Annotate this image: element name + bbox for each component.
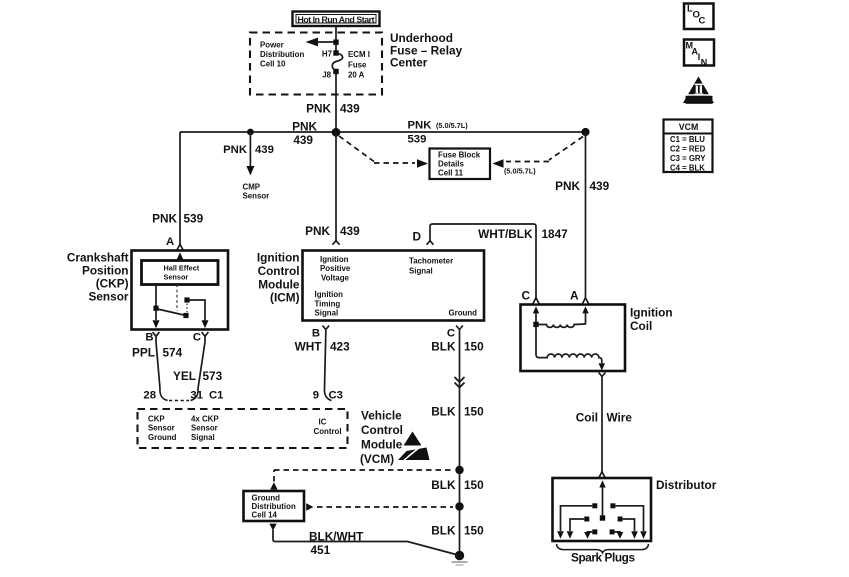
label PNK 439 (fuse output) <box>306 102 360 116</box>
label vehicle control module (VCM) <box>360 409 403 467</box>
ckp internal: arrow to C <box>202 320 209 328</box>
svg-text:PNK: PNK <box>152 212 177 226</box>
svg-text:PPL: PPL <box>132 346 155 360</box>
svg-text:Signal: Signal <box>409 266 433 275</box>
ckp internal: switch node <box>153 306 158 311</box>
svg-text:439: 439 <box>340 102 360 116</box>
distributor contact mid-left <box>567 517 590 539</box>
svg-text:PNK: PNK <box>306 102 331 116</box>
svg-text:H7: H7 <box>322 50 333 59</box>
connector A (coil) <box>582 298 589 304</box>
svg-text:150: 150 <box>464 478 484 492</box>
ignition coil box <box>521 305 626 372</box>
svg-text:(CKP): (CKP) <box>96 277 129 291</box>
svg-text:Signal: Signal <box>315 308 339 317</box>
svg-text:D: D <box>412 230 421 244</box>
wire BLK/WHT 451 <box>269 524 458 555</box>
svg-text:C: C <box>521 289 530 303</box>
label tachometer signal <box>409 257 453 276</box>
label BLK 150 (4) <box>431 524 484 538</box>
label WHT 423 <box>295 339 350 353</box>
pin 9 (vcm C3) <box>313 389 343 402</box>
label PNK 439 (cmp branch) <box>223 144 274 156</box>
ckp internal: switch arm <box>158 309 187 316</box>
distributor contact lower-left <box>584 529 597 538</box>
label BLK 150 (3) <box>431 478 484 492</box>
svg-text:ECM I: ECM I <box>348 50 370 59</box>
svg-text:Hall Effect: Hall Effect <box>164 264 200 273</box>
distributor contact mid-right <box>618 517 638 539</box>
svg-text:150: 150 <box>464 405 484 419</box>
svg-text:BLK: BLK <box>431 478 456 492</box>
svg-text:Distribution: Distribution <box>260 50 304 59</box>
svg-text:WHT/BLK: WHT/BLK <box>478 227 533 241</box>
connector coil tower <box>599 373 606 382</box>
svg-text:439: 439 <box>293 133 313 147</box>
wire fuse J8 to bus node <box>335 73 337 132</box>
svg-text:Cell 11: Cell 11 <box>438 169 464 178</box>
svg-text:Cell 10: Cell 10 <box>260 60 286 69</box>
label PNK 539 (ckp feed) <box>152 212 204 226</box>
svg-text:Hot In Run And Start: Hot In Run And Start <box>298 14 375 24</box>
label underhood fuse-relay center <box>390 31 463 70</box>
svg-text:20 A: 20 A <box>348 71 365 80</box>
dashed ref from right splice to fuse block details <box>493 137 584 168</box>
wire bus to ICM pin <box>335 132 337 241</box>
wire branch to power distribution <box>306 38 339 47</box>
svg-text:C1: C1 <box>209 390 223 402</box>
svg-text:1847: 1847 <box>542 227 569 241</box>
svg-text:B: B <box>312 327 320 339</box>
svg-text:PNK: PNK <box>292 120 317 134</box>
wire hot-in-run to fuse H7 <box>335 26 337 51</box>
coil secondary output arrow <box>599 363 606 370</box>
svg-text:Sensor: Sensor <box>191 424 218 433</box>
svg-text:Voltage: Voltage <box>321 273 350 282</box>
svg-text:539: 539 <box>184 212 204 226</box>
label ignition control module (ICM) <box>257 251 300 305</box>
svg-text:(ICM): (ICM) <box>270 291 300 305</box>
dashed ref from main splice to fuse block details <box>339 136 428 168</box>
svg-text:Spark Plugs: Spark Plugs <box>571 551 635 565</box>
coil secondary winding <box>536 327 602 363</box>
svg-text:PNK: PNK <box>408 120 433 132</box>
connector D <box>427 241 434 245</box>
coil internal arrow C <box>533 306 539 322</box>
label BLK 150 (1) <box>431 339 484 353</box>
svg-text:VCM: VCM <box>679 122 699 132</box>
svg-text:A: A <box>570 289 579 303</box>
svg-text:(5.0/5.7L): (5.0/5.7L) <box>504 167 536 176</box>
node splice vcm ground <box>455 466 463 474</box>
ckp internal: contact node <box>184 297 189 302</box>
svg-text:Ignition: Ignition <box>630 306 673 320</box>
svg-text:B: B <box>145 332 153 344</box>
label YEL 573 <box>173 369 223 383</box>
label crankshaft position (CKP) sensor <box>67 251 129 304</box>
label CMP Sensor <box>243 183 270 201</box>
connector C (coil) <box>533 298 540 304</box>
svg-text:Ignition: Ignition <box>320 255 349 264</box>
node splice S-bottom <box>452 551 468 565</box>
connector at ICM top <box>332 241 339 245</box>
svg-text:Timing: Timing <box>315 299 341 308</box>
svg-text:Cell 14: Cell 14 <box>252 510 278 519</box>
svg-text:Distributor: Distributor <box>656 478 717 492</box>
ckp internal: contact lead to C <box>189 300 205 321</box>
connector A (ckp) <box>177 244 184 250</box>
label PNK 439 (icm feed) <box>305 224 360 238</box>
svg-text:YEL: YEL <box>173 369 196 383</box>
connector C1 dashed link <box>169 400 189 402</box>
distributor rotor feed <box>599 480 605 520</box>
label PNK 539 (5.0/5.7L right bus) <box>408 120 469 146</box>
svg-text:150: 150 <box>464 524 484 538</box>
pin 28 (vcm C1) <box>143 389 167 402</box>
wire break marker <box>455 377 465 388</box>
coil wire <box>601 381 603 472</box>
svg-text:A: A <box>166 236 174 248</box>
svg-text:150: 150 <box>464 339 484 353</box>
ESD sensitivity symbol <box>398 432 430 461</box>
svg-text:Coil: Coil <box>630 319 652 333</box>
distributor box <box>553 478 652 541</box>
svg-text:Module: Module <box>258 278 300 292</box>
svg-text:Details: Details <box>438 160 464 169</box>
ckp internal: dotted gap <box>186 304 188 314</box>
wire bus to CKP sensor A <box>179 132 181 245</box>
svg-text:PNK: PNK <box>305 224 330 238</box>
svg-text:C: C <box>193 332 201 344</box>
CKP sensor box <box>132 251 229 330</box>
pin C (icm) <box>447 326 463 340</box>
svg-text:Ground: Ground <box>148 433 177 442</box>
svg-text:Power: Power <box>260 41 284 50</box>
icon MAIN box <box>684 40 714 68</box>
label BLK 150 (2) <box>431 405 484 419</box>
wire WHT 423 <box>325 333 326 389</box>
svg-text:PNK: PNK <box>223 144 248 156</box>
VCM dashed box <box>138 409 348 448</box>
label PNK 439 (left bus) <box>292 120 317 148</box>
distributor contact upper-right <box>610 503 646 538</box>
ckp internal: arrow to B <box>153 310 160 328</box>
svg-text:Sensor: Sensor <box>164 273 189 282</box>
svg-text:C1 = BLU: C1 = BLU <box>670 135 705 144</box>
pin B (ckp) <box>145 332 159 344</box>
fuse ECM 1 20A (H7-J8) <box>322 50 370 80</box>
svg-text:BLK: BLK <box>431 339 456 353</box>
svg-text:Control: Control <box>361 423 403 437</box>
icon LOC box <box>684 4 714 30</box>
svg-text:Center: Center <box>390 56 428 70</box>
svg-text:N: N <box>701 58 708 68</box>
arrow into hall sensor <box>177 252 184 260</box>
svg-text:451: 451 <box>311 543 331 557</box>
icon OBD II triangle <box>683 77 714 105</box>
svg-text:Sensor: Sensor <box>243 192 270 201</box>
svg-text:439: 439 <box>590 179 610 193</box>
svg-text:Control: Control <box>314 427 342 436</box>
node splice main <box>332 128 341 137</box>
svg-text:Wire: Wire <box>607 411 633 425</box>
label 4x ckp sensor signal <box>191 415 219 442</box>
spark plugs brace <box>557 544 649 553</box>
svg-text:Sensor: Sensor <box>148 424 175 433</box>
wire YEL 573 <box>198 342 205 389</box>
coil primary winding <box>538 324 586 327</box>
label BLK/WHT 451 <box>309 530 364 558</box>
svg-text:J8: J8 <box>322 71 331 80</box>
coil primary node <box>533 322 538 327</box>
svg-text:WHT: WHT <box>295 339 323 353</box>
svg-text:Tachometer: Tachometer <box>409 257 453 266</box>
svg-text:C2 = RED: C2 = RED <box>670 145 706 154</box>
svg-text:C3: C3 <box>329 390 343 402</box>
svg-text:CMP: CMP <box>243 183 261 192</box>
VCM connector legend <box>664 120 713 173</box>
svg-text:573: 573 <box>203 369 223 383</box>
label ignition positive voltage <box>320 255 351 282</box>
svg-text:C: C <box>447 327 455 339</box>
ground distribution cell 14 box <box>244 491 305 521</box>
svg-text:Fuse Block: Fuse Block <box>438 151 481 160</box>
label ignition timing signal <box>315 290 344 317</box>
ICM box <box>303 251 485 321</box>
svg-text:9: 9 <box>313 390 319 402</box>
ckp internal: switch arm node <box>183 313 188 318</box>
svg-text:CKP: CKP <box>148 415 165 424</box>
svg-text:Vehicle: Vehicle <box>361 409 402 423</box>
wire right splice to ignition coil A <box>585 132 587 298</box>
pin B (icm) <box>312 326 329 340</box>
label ignition coil <box>630 306 673 334</box>
wire BLK 150 (ground) <box>459 330 461 556</box>
svg-text:Coil: Coil <box>576 411 598 425</box>
node splice right <box>581 128 589 136</box>
ckp internal: hall output lead <box>155 285 157 310</box>
svg-text:(5.0/5.7L): (5.0/5.7L) <box>436 121 468 130</box>
wire cmp sensor branch <box>246 132 254 176</box>
svg-text:Fuse: Fuse <box>348 61 367 70</box>
svg-text:IC: IC <box>319 418 327 427</box>
svg-text:Crankshaft: Crankshaft <box>67 251 129 265</box>
svg-text:Ignition: Ignition <box>257 251 300 265</box>
wire PPL 574 <box>156 342 160 389</box>
distributor contact lower-right <box>610 529 624 538</box>
svg-text:Ground: Ground <box>449 309 478 318</box>
svg-text:OBD II: OBD II <box>688 97 710 104</box>
label WHT/BLK 1847 <box>478 227 568 241</box>
svg-text:Position: Position <box>82 264 129 278</box>
svg-text:C: C <box>699 16 706 27</box>
svg-text:4x CKP: 4x CKP <box>191 415 219 424</box>
connector distributor cap <box>599 472 606 478</box>
svg-text:439: 439 <box>255 144 274 156</box>
svg-text:574: 574 <box>163 346 183 360</box>
dashed wire vcm ground to splice <box>274 470 453 482</box>
pin 31 (vcm C1) <box>190 389 223 402</box>
svg-text:C4 = BLK: C4 = BLK <box>670 164 705 173</box>
fuse block details cell 11 box <box>430 149 491 180</box>
svg-text:423: 423 <box>330 339 350 353</box>
svg-text:BLK/WHT: BLK/WHT <box>309 530 364 544</box>
hot in run and start tag <box>293 12 380 27</box>
svg-text:C3 = GRY: C3 = GRY <box>670 154 706 163</box>
svg-text:Sensor: Sensor <box>89 290 129 304</box>
svg-text:PNK: PNK <box>555 179 580 193</box>
svg-text:Signal: Signal <box>191 433 215 442</box>
svg-text:439: 439 <box>340 224 360 238</box>
pin C (ckp) <box>193 332 209 344</box>
svg-text:Positive: Positive <box>320 264 351 273</box>
underhood fuse-relay center dashed box <box>250 33 382 95</box>
label power distribution cell 10 <box>260 41 304 69</box>
svg-text:Module: Module <box>361 438 403 452</box>
svg-text:Control: Control <box>258 264 300 278</box>
svg-text:28: 28 <box>143 390 156 402</box>
label coil wire <box>576 411 633 425</box>
svg-text:BLK: BLK <box>431 524 456 538</box>
svg-text:539: 539 <box>408 134 427 146</box>
svg-text:Ignition: Ignition <box>315 290 344 299</box>
wire WHT/BLK 1847 (D to coil C) <box>430 224 536 298</box>
label ic control <box>314 418 342 436</box>
label PPL 574 <box>132 346 183 360</box>
svg-text:BLK: BLK <box>431 405 456 419</box>
arrow into ground distribution <box>270 482 277 489</box>
wire pnk bus <box>180 131 586 133</box>
svg-text:(VCM): (VCM) <box>360 452 394 466</box>
label PNK 439 (coil feed) <box>555 179 610 193</box>
node splice gd ground <box>455 502 463 510</box>
dashed wire ground distribution to splice <box>306 503 453 510</box>
coil internal arrow A <box>582 306 588 324</box>
ckp internal: dashed lead <box>176 285 178 312</box>
hall effect sensor box <box>142 261 219 285</box>
distributor contact upper-left <box>557 503 597 538</box>
node splice cmp <box>247 129 254 136</box>
label ckp sensor ground <box>148 415 177 442</box>
